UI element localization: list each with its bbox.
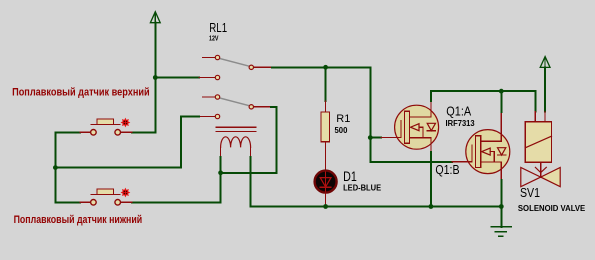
ground symbol: [492, 207, 511, 237]
wire coil node down to button2 right: [132, 173, 221, 203]
pin stub sw1 common: [199, 77, 215, 79]
node VCC-left junction: [153, 75, 158, 80]
star marker: [121, 188, 131, 198]
wire gate to Q1:A: [370, 137, 381, 139]
node Q1:A source junction: [429, 204, 434, 209]
contact circle sw1 common: [215, 75, 219, 79]
blade sw2: [219, 98, 251, 106]
coil core lines: [216, 126, 256, 128]
valve stem: [540, 162, 542, 177]
pin R1 top: [325, 101, 327, 112]
pin stub left: [80, 201, 90, 203]
LED D1: [315, 171, 337, 193]
mosfet Q1:B: [466, 112, 510, 180]
power symbol VCC left: [150, 12, 160, 78]
pin SV1 left: [534, 112, 536, 122]
pin Q1:B gate: [452, 161, 466, 163]
wire left junction up to button1 left: [55, 132, 80, 167]
valve right triangle: [541, 168, 561, 187]
wire relay sw2 common riser: [55, 117, 199, 168]
pin Q1:A gate: [381, 137, 395, 139]
pin stub sw2 NC: [202, 96, 215, 98]
pin R1 bottom: [325, 142, 327, 170]
svg-text:IRF7313: IRF7313: [446, 119, 476, 128]
relay RL1 coil: [216, 127, 256, 157]
svg-text:R1: R1: [336, 113, 350, 125]
wire Q1:B drain up: [500, 91, 502, 112]
actuator base line: [91, 123, 120, 125]
contact circle sw2 right: [249, 105, 253, 109]
svg-text:12V: 12V: [209, 36, 219, 43]
wire gate riser: [369, 67, 371, 137]
wire Q1:A source down: [430, 152, 432, 207]
wire coil left pin to node: [220, 157, 222, 173]
pin SV1 right: [544, 112, 546, 122]
svg-text:500: 500: [335, 126, 348, 135]
svg-text:D1: D1: [343, 169, 357, 184]
valve left triangle: [521, 168, 541, 187]
pin circle left: [91, 200, 97, 206]
pin stub right: [121, 131, 132, 133]
button upper float sensor: [80, 118, 132, 136]
pin stub sw1 pole out: [254, 66, 273, 68]
svg-text:RL1: RL1: [209, 20, 227, 35]
contact circle sw1 left: [215, 55, 219, 59]
contact circle sw2 common: [215, 114, 219, 118]
node gate junction: [368, 135, 373, 140]
relay RL1 switch 2: [199, 95, 271, 119]
pin stub sw2 common: [199, 116, 215, 118]
svg-text:Поплавковый датчик верхний: Поплавковый датчик верхний: [12, 87, 150, 99]
cap: [97, 189, 114, 194]
actuator base line: [91, 193, 120, 195]
node D1 bottom junction: [323, 204, 328, 209]
relay RL1 switch 1: [199, 55, 272, 79]
button lower float sensor: [80, 188, 132, 206]
wire sw1 output to R1 and gate riser: [272, 66, 370, 68]
valve stem arrowhead: [535, 167, 546, 172]
svg-text:Q1:A: Q1:A: [446, 104, 471, 119]
power symbol VCC right: [540, 57, 550, 112]
resistor R1: [321, 112, 329, 142]
node coil-left junction: [218, 170, 223, 175]
coil pin right: [250, 147, 252, 157]
pin stub sw2 pole out: [254, 106, 272, 108]
pin stub sw1 NC: [202, 57, 215, 59]
svg-text:LED-BLUE: LED-BLUE: [343, 184, 382, 193]
wire top rail to SV1: [431, 91, 535, 111]
svg-text:SV1: SV1: [520, 185, 540, 200]
solenoid diagonal: [525, 136, 551, 148]
blade sw1: [219, 58, 251, 66]
svg-text:Поплавковый датчик нижний: Поплавковый датчик нижний: [14, 214, 143, 226]
mosfet Q1:A: [395, 101, 439, 152]
coil loops: [221, 137, 251, 148]
contact circle sw2 left: [215, 95, 219, 99]
node left junction: [53, 165, 58, 170]
wire sw2 output down to coil node: [221, 107, 277, 173]
pin D1 bottom: [325, 193, 327, 207]
node ground junction: [499, 204, 504, 209]
wire gate down to Q1:B: [370, 138, 452, 162]
wire Q1:B source down: [500, 180, 502, 207]
svg-text:Q1:B: Q1:B: [435, 162, 459, 177]
pin circle left: [91, 130, 97, 136]
coil pin left: [220, 147, 222, 157]
pin circle right: [115, 200, 121, 206]
contact circle sw1 right: [249, 65, 253, 69]
svg-text:SOLENOID VALVE: SOLENOID VALVE: [518, 204, 586, 213]
wire R1 top: [325, 67, 327, 101]
wire coil right pin down to ground rail: [251, 157, 502, 207]
pin stub right: [121, 201, 132, 203]
wire Q1:A drain up: [430, 91, 432, 101]
cap: [97, 119, 114, 124]
wire VCC to relay SW1 common: [155, 77, 199, 79]
wire VCC down to button1 right: [132, 78, 155, 133]
pin circle right: [115, 130, 121, 136]
solenoid SV1 body: [525, 122, 551, 162]
pin stub left: [80, 131, 90, 133]
star marker: [121, 118, 131, 128]
node top rail junction: [499, 89, 504, 94]
wire left junction down to button2 left: [55, 168, 80, 203]
node R1 top junction: [323, 65, 328, 70]
